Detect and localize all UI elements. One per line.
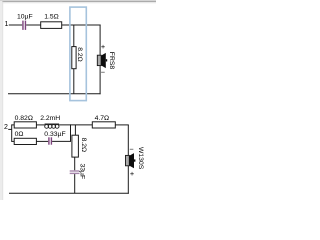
resistor R5 4.7ohm <box>92 122 115 128</box>
svg-text:10µF: 10µF <box>17 14 33 21</box>
svg-text:2: 2 <box>4 124 8 131</box>
inductor L1 2.2mH coil <box>45 124 60 129</box>
speaker LS2 cone <box>129 153 134 168</box>
wire R5 to right corner <box>115 124 129 126</box>
wire C3 to bottom rail <box>74 174 76 193</box>
wire down right side to speaker LS2 <box>127 125 129 155</box>
svg-text:0.33µF: 0.33µF <box>44 131 65 138</box>
wire L1 to junction and resistor R5 <box>59 124 92 126</box>
svg-text:2.2mH: 2.2mH <box>40 115 60 122</box>
node A vertical wire <box>11 124 13 141</box>
top window border line <box>0 1 156 3</box>
svg-text:1: 1 <box>4 21 8 28</box>
wire R3 to inductor L1 <box>36 124 44 126</box>
svg-text:4.7Ω: 4.7Ω <box>95 115 110 122</box>
speaker LS2 magnet <box>126 155 130 165</box>
bottom rail of tweeter circuit <box>8 93 101 95</box>
svg-text:33µF: 33µF <box>79 164 86 180</box>
svg-text:FRS8: FRS8 <box>108 52 115 70</box>
svg-text:0Ω: 0Ω <box>15 131 24 138</box>
svg-text:8.2Ω: 8.2Ω <box>76 47 83 62</box>
svg-text:0.82Ω: 0.82Ω <box>15 115 33 122</box>
resistor R6 8.2ohm vertical <box>72 135 79 157</box>
speaker LS1 cone <box>101 53 106 68</box>
top wire from R1 to speaker branch <box>62 24 101 26</box>
wire R2 to bottom rail <box>73 69 75 94</box>
speaker LS1 terminal notch <box>106 59 107 61</box>
selection highlight rectangle <box>70 7 86 101</box>
svg-text:W130S: W130S <box>137 147 144 170</box>
wire R6 to capacitor C3 <box>74 157 76 170</box>
speaker LS1 magnet <box>97 55 101 65</box>
svg-text:−: − <box>129 145 133 154</box>
wire from terminal 1 to capacitor C1 <box>9 24 22 26</box>
capacitor C1 10uF <box>23 21 26 30</box>
wire speaker LS1 to bottom rail <box>99 66 101 95</box>
wire stub terminal 2 <box>8 128 12 130</box>
capacitor C3 33uF <box>70 171 80 173</box>
svg-text:1.5Ω: 1.5Ω <box>44 14 59 21</box>
svg-text:8.2Ω: 8.2Ω <box>80 138 87 153</box>
speaker LS2 terminal notch <box>134 159 135 161</box>
bottom rail of woofer circuit <box>9 192 129 194</box>
left window border line <box>0 1 3 200</box>
wire junction down to resistor R2 <box>73 25 75 47</box>
wire down right side to speaker LS1 <box>99 25 101 56</box>
resistor R3 0.82ohm <box>14 122 36 128</box>
node B vertical wire <box>70 124 72 141</box>
svg-text:+: + <box>101 42 105 51</box>
wire junction down to resistor R6 <box>74 125 76 135</box>
wire R4 to capacitor C2 <box>36 140 48 142</box>
svg-text:+: + <box>130 169 134 178</box>
resistor R1 1.5ohm <box>41 22 62 29</box>
wire node A to resistor R3 <box>12 124 15 126</box>
wire C2 to node B <box>52 140 70 142</box>
wire capacitor C1 to resistor R1 <box>26 24 41 26</box>
wire node A to resistor R4 <box>12 140 15 142</box>
resistor R2 8.2ohm vertical <box>72 47 76 69</box>
resistor R4 0ohm <box>14 138 36 144</box>
capacitor C2 0.33uF <box>49 137 52 144</box>
wire speaker LS2 to bottom rail <box>127 166 129 194</box>
svg-text:−: − <box>101 68 105 77</box>
